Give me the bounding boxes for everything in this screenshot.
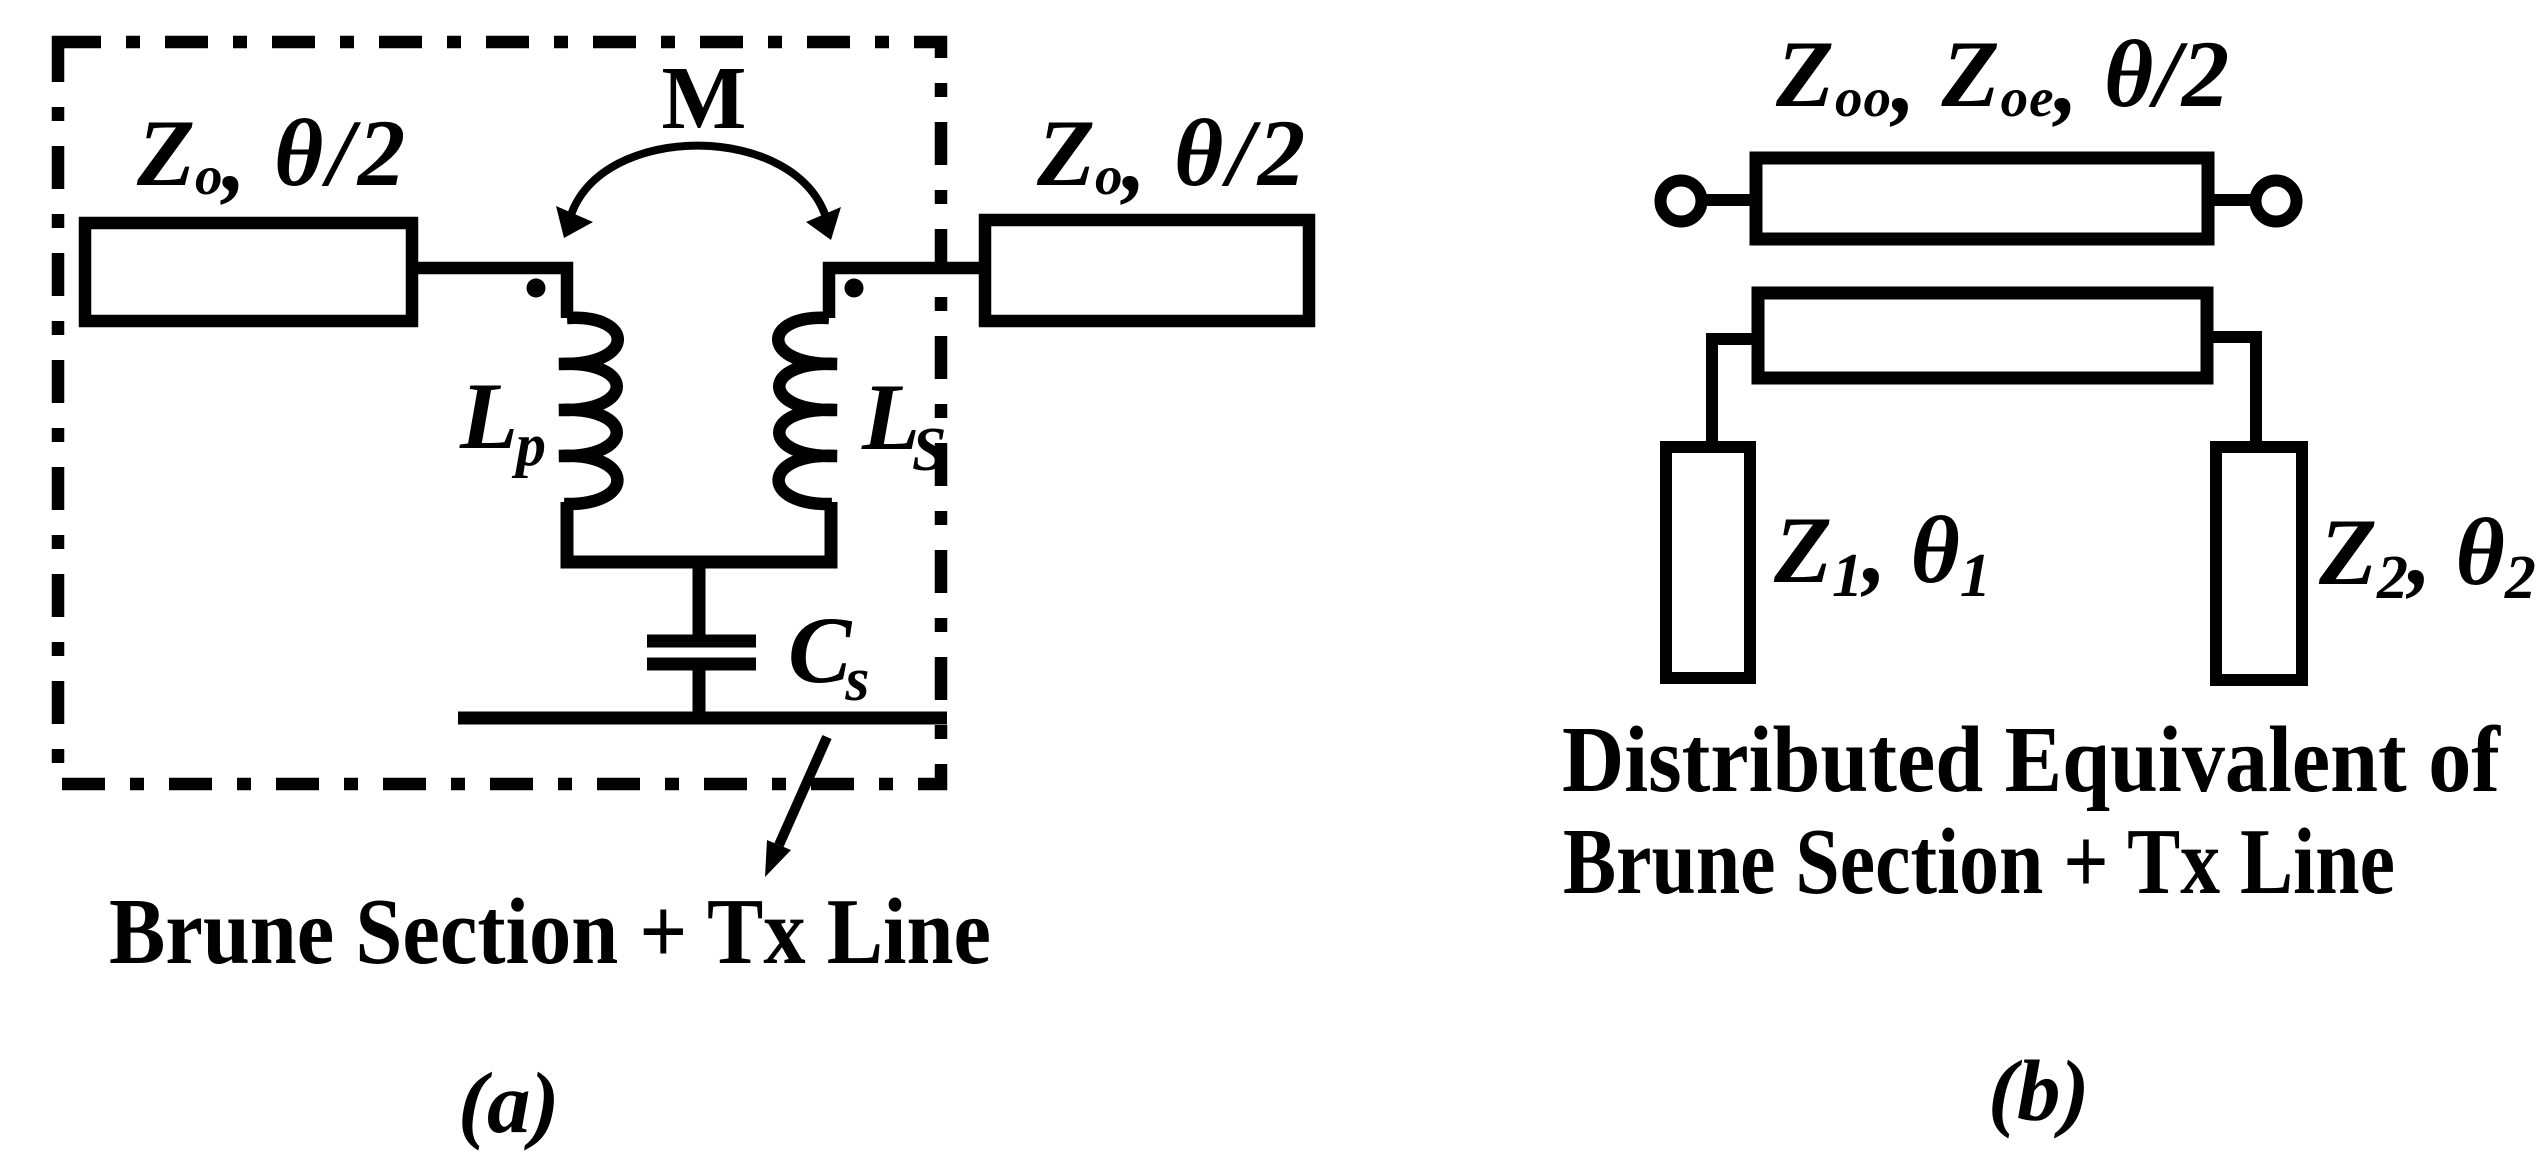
stub Z1 <box>1666 447 1750 678</box>
svg-text:Brune Section + Tx Line: Brune Section + Tx Line <box>109 880 991 984</box>
mutual coupling arc M <box>570 146 827 221</box>
stub Z2 <box>2216 447 2302 680</box>
wire TL1 to Lp <box>412 268 567 318</box>
svg-text:Z2, θ2: Z2, θ2 <box>2318 499 2536 612</box>
capacitor Cs bottom plate <box>647 658 756 671</box>
wire capacitor to ground rail <box>693 664 706 718</box>
svg-text:Distributed Equivalent of: Distributed Equivalent of <box>1562 708 2502 812</box>
wire Lp bottom to common bar <box>567 502 831 562</box>
svg-text:M: M <box>662 49 747 148</box>
svg-text:(b): (b) <box>1988 1042 2089 1139</box>
wire port left <box>1700 194 1760 206</box>
transmission line TL2 (Zo, theta/2 right) <box>985 220 1309 321</box>
wire port right <box>2208 194 2257 206</box>
port terminal right <box>2256 181 2297 222</box>
wire lower conductor right to stub Z2 <box>2207 337 2256 447</box>
arrowhead right of M arc <box>806 207 841 240</box>
capacitor Cs top plate <box>647 635 756 648</box>
wire common bar to capacitor Cs <box>693 560 706 641</box>
transmission line TL1 (Zo, theta/2 left) <box>85 223 412 321</box>
polarity dot Lp <box>527 279 546 298</box>
inductor Lp <box>559 318 618 504</box>
ground rail <box>458 712 947 725</box>
svg-text:(a): (a) <box>458 1054 559 1151</box>
coupled line upper conductor <box>1756 158 2208 239</box>
svg-text:Z1, θ1: Z1, θ1 <box>1773 497 1991 610</box>
dash-dot boundary box (Brune Section + Tx Line) <box>58 42 941 784</box>
wire lower conductor left to stub Z1 <box>1712 339 1758 447</box>
port terminal left <box>1661 181 1702 222</box>
arrowhead left of M arc <box>556 206 593 238</box>
svg-text:Zo, θ/2: Zo, θ/2 <box>1036 100 1309 211</box>
wire Ls top / to TL2 <box>829 268 985 318</box>
annotation arrow to dashed box <box>779 737 827 845</box>
inductor Ls <box>778 318 837 504</box>
svg-text:Zo, θ/2: Zo, θ/2 <box>136 100 409 211</box>
polarity dot Ls <box>845 279 864 298</box>
svg-text:Brune Section + Tx Line: Brune Section + Tx Line <box>1563 810 2395 914</box>
coupled line lower conductor <box>1758 293 2207 378</box>
